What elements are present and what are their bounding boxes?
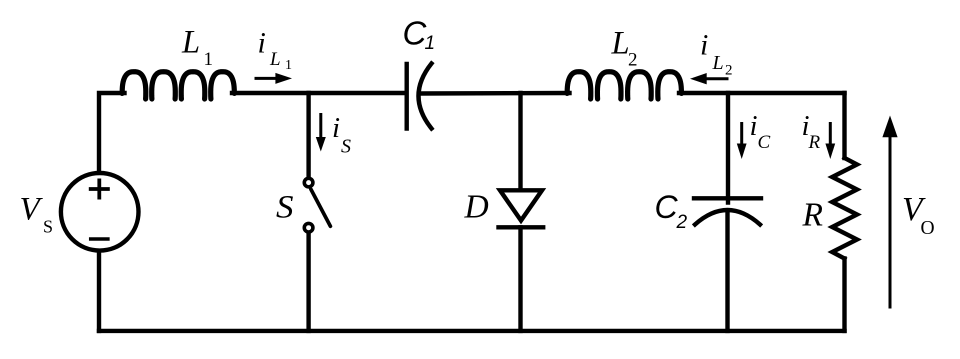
wire: diode branch upper: [518, 93, 522, 190]
capacitor C2 bottom (curved) plate: [695, 210, 760, 225]
svg-text:2: 2: [676, 212, 688, 233]
svg-text:2: 2: [725, 63, 733, 79]
svg-text:C: C: [758, 132, 771, 153]
svg-text:S: S: [276, 189, 294, 225]
wire: diode branch lower: [518, 227, 522, 331]
wire: bottom rail: [99, 329, 845, 333]
wire: resistor branch upper: [842, 93, 846, 158]
svg-text:1: 1: [425, 33, 436, 54]
switch S top contact circle: [304, 178, 313, 187]
inductor L1: [122, 72, 234, 99]
diode D triangle (anode): [500, 190, 542, 220]
svg-text:S: S: [341, 136, 351, 158]
svg-text:1: 1: [285, 58, 292, 73]
current arrow iL2 (points left): [706, 77, 729, 80]
current arrow iS (points down): [319, 113, 322, 138]
svg-text:L: L: [269, 49, 281, 70]
wire: L1 to C1 left plate: [232, 91, 405, 95]
svg-text:i: i: [750, 110, 758, 142]
svg-text:L: L: [181, 24, 200, 60]
capacitor C2 top (straight) plate: [694, 196, 761, 200]
capacitor C1 left (straight) plate: [405, 64, 409, 129]
svg-text:O: O: [921, 218, 935, 239]
wire: switch branch upper: [306, 93, 310, 176]
wire: C2 branch upper: [726, 93, 730, 203]
wire: C1 right plate to L2 (passes diode node): [420, 91, 570, 96]
svg-text:C: C: [655, 189, 679, 225]
switch S blade: [311, 189, 331, 226]
svg-text:i: i: [700, 29, 708, 62]
capacitor C1 right (curved) plate: [419, 64, 432, 129]
svg-text:S: S: [43, 217, 53, 237]
plus sign: [91, 180, 108, 197]
svg-text:i: i: [332, 112, 340, 144]
wire: source bottom to bottom rail: [97, 253, 101, 331]
voltage source VS circle: [61, 173, 139, 251]
output voltage arrow VO (points up): [889, 136, 892, 309]
diode D cathode bar: [499, 225, 544, 229]
wire: resistor branch lower: [842, 259, 846, 331]
svg-text:i: i: [258, 26, 266, 59]
wire: switch branch lower: [306, 234, 310, 331]
svg-text:V: V: [20, 192, 44, 228]
svg-text:R: R: [808, 132, 821, 153]
wire: L2 to top-right corner: [679, 91, 845, 95]
switch S bottom contact circle: [304, 223, 313, 232]
inductor L2: [567, 72, 681, 99]
wire: C2 branch lower: [725, 211, 729, 331]
current arrow iR (points down): [829, 122, 832, 145]
minus sign: [91, 237, 108, 241]
svg-text:R: R: [802, 197, 823, 234]
svg-text:1: 1: [204, 49, 214, 70]
svg-text:L: L: [611, 26, 630, 62]
resistor R zigzag: [832, 158, 857, 259]
svg-text:2: 2: [628, 50, 638, 71]
current arrow iC (points down): [740, 122, 743, 145]
svg-text:D: D: [464, 189, 489, 226]
current arrow iL1 (points right): [255, 77, 277, 80]
svg-text:L: L: [712, 52, 724, 74]
wire: source top up to top rail and to L1: [99, 93, 125, 172]
